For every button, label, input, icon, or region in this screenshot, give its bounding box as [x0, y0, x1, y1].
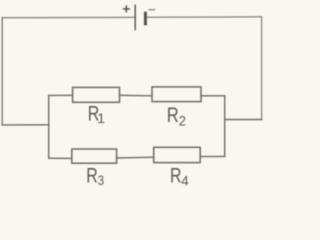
svg-text:R: R — [167, 104, 179, 127]
wire R1 to R2 — [120, 94, 153, 97]
wire R4 to right bus — [200, 155, 225, 157]
resistor R3 body — [72, 149, 117, 163]
svg-text:R: R — [86, 165, 98, 187]
node A: left bus bar vertical — [48, 95, 50, 158]
battery polarity label - — [148, 9, 155, 11]
resistor R1 body — [73, 87, 120, 102]
battery B1 negative plate (short thick) — [144, 12, 147, 26]
svg-text:R: R — [170, 165, 182, 186]
wire left mid connector (node A to left bus) — [2, 124, 49, 126]
resistor R2 body — [152, 87, 201, 102]
wire R2 to right bus — [201, 95, 225, 97]
battery polarity label + — [123, 5, 130, 12]
svg-text:2: 2 — [179, 113, 186, 129]
svg-text:3: 3 — [98, 172, 104, 186]
resistor R4 body — [154, 147, 201, 162]
wire left bus to R1 — [49, 94, 73, 96]
battery B1 positive plate (long thin) — [134, 5, 136, 31]
wire top-left horizontal (battery + terminal to top-left corner) — [2, 16, 135, 18]
svg-text:4: 4 — [181, 173, 189, 186]
wire outer-right vertical — [261, 17, 263, 120]
wire outer-left vertical — [1, 18, 3, 125]
wire left bus to R3 — [49, 157, 72, 159]
svg-text:1: 1 — [97, 110, 105, 126]
node B: right bus bar vertical — [224, 96, 226, 157]
wire right mid connector (node B to right bus) — [225, 119, 262, 121]
wire R3 to R4 — [117, 156, 154, 159]
wire top-right horizontal (battery - terminal to top-right corner) — [145, 16, 261, 18]
